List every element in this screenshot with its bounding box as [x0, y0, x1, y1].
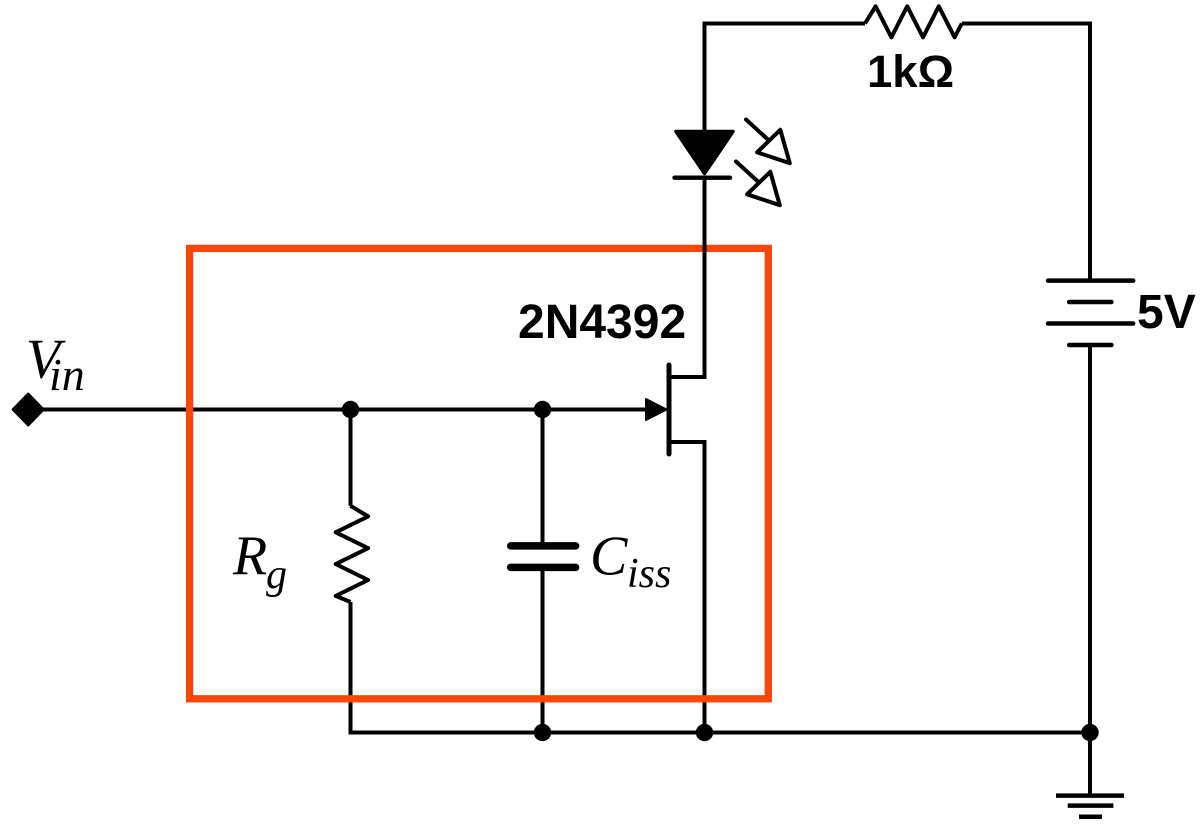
capacitor Ciss bottom plate	[511, 564, 576, 572]
battery B1 plate short bottom	[1069, 343, 1111, 348]
transistor Q1 source lead and wire down to bus	[669, 442, 705, 733]
wire resistor to battery top	[962, 24, 1090, 281]
wire Ciss junction down to capacitor	[541, 410, 545, 547]
wire Rg bottom to bus corner	[351, 602, 546, 733]
battery B1 plate long top	[1048, 278, 1133, 283]
node junction dot gate/Rg	[342, 401, 359, 418]
svg-text:R: R	[232, 525, 267, 587]
node junction dot gate/Ciss	[534, 401, 551, 418]
wire gate from Vin to JFET	[43, 408, 650, 412]
svg-text:in: in	[49, 349, 85, 400]
ground bar 3	[1079, 814, 1102, 819]
ground bar 2	[1068, 803, 1114, 808]
transistor Q1 gate arrow	[646, 399, 667, 420]
svg-text:C: C	[590, 526, 628, 588]
node junction dot bus/battery	[1081, 724, 1098, 741]
wire top from LED branch to resistor	[705, 24, 866, 133]
ground bar 1	[1056, 793, 1124, 798]
wire LED cathode down to JFET drain (drawn over orange box)	[669, 178, 705, 377]
resistor R1 1k zigzag	[865, 6, 962, 37]
svg-text:g: g	[266, 552, 287, 598]
svg-text:5V: 5V	[1137, 286, 1196, 339]
dashed-box (orange subcircuit boundary, drawn over interior wires)	[190, 248, 769, 698]
wire capacitor bottom to bus	[541, 567, 545, 732]
LED light arrow 1	[746, 120, 790, 164]
resistor Rg zigzag	[336, 506, 368, 602]
node junction dot bus/source	[696, 724, 713, 741]
battery B1 plate short	[1069, 300, 1111, 305]
svg-text:1kΩ: 1kΩ	[867, 46, 954, 97]
node Vin terminal diamond	[13, 394, 44, 426]
transistor Q1 2N4392 channel bar	[667, 365, 672, 454]
wire bottom bus	[543, 731, 1091, 735]
wire battery bottom to ground	[1088, 345, 1092, 796]
LED D1 cathode bar	[675, 175, 731, 179]
node junction dot bus/Ciss	[534, 724, 551, 741]
svg-text:iss: iss	[627, 551, 671, 597]
LED D1 triangle	[676, 132, 733, 174]
svg-text:2N4392: 2N4392	[518, 296, 686, 349]
capacitor Ciss top plate	[511, 542, 576, 550]
battery B1 plate long	[1048, 321, 1133, 326]
wire gate junction down to Rg	[349, 410, 353, 506]
LED light arrow 2	[736, 162, 780, 206]
